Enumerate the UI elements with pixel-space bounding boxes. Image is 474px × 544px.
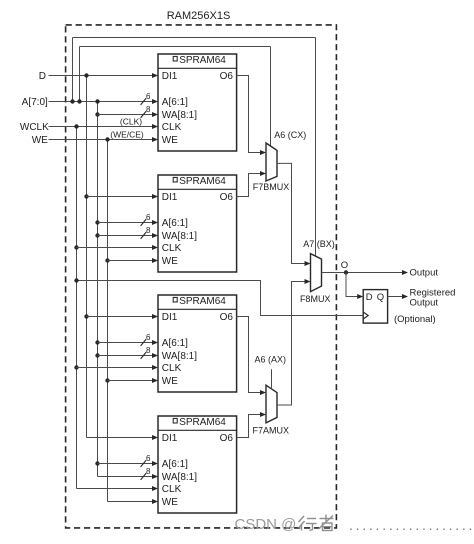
- wire DI1 U2: [87, 196, 153, 198]
- wire A6(CX) top run: [80, 46, 271, 48]
- svg-text:A[6:1]: A[6:1]: [162, 218, 188, 229]
- svg-text:Q: Q: [377, 292, 384, 303]
- junction WA1 branch: [95, 112, 99, 116]
- wire FDR Q to Registered Output: [388, 296, 402, 298]
- wire D input: [49, 75, 153, 77]
- U2 header glyph square: [173, 177, 177, 182]
- wire F7AMUX out to F8MUX in1: [277, 282, 305, 406]
- wire CLK U4: [77, 488, 153, 490]
- svg-text:WCLK: WCLK: [20, 122, 49, 133]
- svg-text:SPRAM64: SPRAM64: [179, 55, 226, 66]
- svg-text:A6 (AX): A6 (AX): [255, 355, 287, 365]
- mux F8MUX: [311, 254, 322, 292]
- watermark hanzi Xing: [299, 516, 317, 531]
- arrow DI1 U4: [152, 435, 158, 440]
- wire WE U3: [108, 380, 153, 382]
- wire D vertical bus: [86, 76, 88, 438]
- watermark hanzi Zhe: [319, 515, 334, 531]
- arrow FDR D: [357, 294, 363, 299]
- arrow Registered Output: [402, 294, 408, 299]
- wire A[6:1] U2: [98, 222, 153, 224]
- wire F8MUX out to Output: [322, 272, 403, 274]
- wire WA[8:1] U3: [98, 355, 153, 357]
- U3 header divider: [158, 308, 237, 310]
- wire CLK U2: [77, 247, 153, 249]
- svg-text:(Optional): (Optional): [394, 314, 436, 325]
- junction A / U3 WA: [95, 353, 99, 357]
- U1 header glyph square: [173, 56, 177, 61]
- svg-text:A[6:1]: A[6:1]: [162, 338, 188, 349]
- junction WE: [105, 137, 109, 141]
- svg-text:DI1: DI1: [162, 71, 178, 82]
- arrow CLK U4: [152, 486, 158, 491]
- junction WCLK: [74, 124, 78, 128]
- wire DI1 U4: [87, 437, 153, 439]
- svg-text:SPRAM64: SPRAM64: [179, 176, 226, 187]
- bus slash 8 U4: [141, 473, 147, 480]
- svg-text:A7 (BX): A7 (BX): [303, 239, 335, 249]
- svg-text:(WE/CE): (WE/CE): [110, 130, 144, 140]
- svg-text:8: 8: [146, 105, 151, 114]
- svg-text:6: 6: [146, 213, 151, 222]
- arrow WA[8:1] U4: [152, 474, 158, 479]
- arrow CLK U3: [152, 365, 158, 370]
- wire A[6:1] U4: [98, 463, 153, 465]
- bus slash 6 U3: [141, 339, 147, 346]
- svg-text:O6: O6: [220, 192, 234, 203]
- junction A: [95, 99, 99, 103]
- wire O to FDR D input: [346, 273, 357, 297]
- arrow F8MUX in1: [305, 279, 311, 284]
- svg-text:WE: WE: [32, 135, 48, 146]
- wire U1 O6 to F7BMUX in0: [237, 76, 261, 153]
- svg-text:A6 (CX): A6 (CX): [274, 130, 306, 140]
- arrow CLK U2: [152, 245, 158, 250]
- svg-text:WE: WE: [162, 497, 178, 508]
- junction A line / A7 riser: [70, 99, 74, 103]
- wire WA[8:1] U4: [98, 476, 153, 478]
- svg-text:CLK: CLK: [162, 363, 182, 374]
- FDR clock triangle: [363, 312, 368, 319]
- SPRAM64 block U2: [158, 175, 237, 272]
- mux F7BMUX: [266, 143, 277, 181]
- U2 header divider: [158, 188, 237, 190]
- wire WCLK to FDR clock: [77, 281, 364, 316]
- arrow Output: [402, 270, 408, 275]
- svg-text:...................: ...................: [349, 517, 474, 533]
- svg-text:A[6:1]: A[6:1]: [162, 459, 188, 470]
- wire A6(CX) select riser: [79, 47, 81, 102]
- wire WE U2: [108, 260, 153, 262]
- svg-text:F7AMUX: F7AMUX: [253, 426, 290, 436]
- wire A7 select riser: [72, 38, 74, 102]
- junction WE / U2: [105, 258, 109, 262]
- svg-text:WE: WE: [162, 135, 178, 146]
- bus slash 8 U3: [141, 352, 147, 359]
- svg-text:CSDN @: CSDN @: [235, 516, 297, 533]
- junction WE / U3: [105, 378, 109, 382]
- svg-text:D: D: [366, 292, 373, 303]
- bus slash 6 U1: [141, 98, 147, 105]
- wire A6(CX) drop to F7BMUX: [270, 47, 272, 147]
- bus slash 8 U2: [141, 232, 147, 239]
- wire WCLK input: [49, 126, 153, 128]
- junction WCLK / U2: [74, 245, 78, 249]
- wire DI1 U3: [87, 316, 153, 318]
- svg-text:CLK: CLK: [162, 484, 182, 495]
- junction A line / A6 riser: [77, 99, 81, 103]
- svg-text:DI1: DI1: [162, 312, 178, 323]
- svg-text:WA[8:1]: WA[8:1]: [162, 472, 197, 483]
- mux F7AMUX: [266, 385, 277, 423]
- svg-text:O: O: [341, 260, 348, 271]
- arrow WE U2: [152, 258, 158, 263]
- svg-text:F8MUX: F8MUX: [300, 294, 331, 304]
- svg-text:F7BMUX: F7BMUX: [253, 182, 290, 192]
- wire WE vertical bus: [107, 140, 109, 502]
- svg-text:DI1: DI1: [162, 192, 178, 203]
- wire A[7:0] input: [49, 101, 153, 103]
- arrow F8MUX in0: [305, 261, 311, 266]
- wire A7 select top run: [73, 37, 316, 39]
- arrow CLK into U1: [152, 124, 158, 129]
- arrow F7AMUX in1: [260, 412, 266, 417]
- svg-text:SPRAM64: SPRAM64: [179, 296, 226, 307]
- wire U3 O6 to F7AMUX in0: [237, 317, 261, 393]
- bus slash 6 U4: [141, 460, 147, 467]
- svg-text:RAM256X1S: RAM256X1S: [167, 10, 231, 22]
- svg-text:WE: WE: [162, 376, 178, 387]
- arrow A[6:1] into U1: [152, 99, 158, 104]
- wire A vertical bus: [97, 102, 99, 477]
- wire WA[8:1] U2: [98, 235, 153, 237]
- svg-text:WA[8:1]: WA[8:1]: [162, 351, 197, 362]
- svg-text:CLK: CLK: [162, 122, 182, 133]
- wire F7BMUX out to F8MUX in0: [277, 163, 305, 263]
- junction WCLK / FDR clock: [74, 278, 78, 282]
- arrow WE U4: [152, 499, 158, 504]
- junction D / U2: [84, 194, 88, 198]
- svg-text:8: 8: [146, 467, 151, 476]
- svg-text:WA[8:1]: WA[8:1]: [162, 231, 197, 242]
- svg-text:DI1: DI1: [162, 433, 178, 444]
- wire WE input: [49, 139, 153, 141]
- junction node O: [344, 270, 348, 274]
- bus slash 8 U1: [141, 111, 147, 118]
- U3 header glyph square: [173, 297, 177, 302]
- arrow A[6:1] U2: [152, 220, 158, 225]
- junction D / U3: [84, 314, 88, 318]
- RAM256X1S boundary (dashed): [66, 25, 337, 528]
- arrow F7BMUX in1: [260, 171, 266, 176]
- arrow WE U3: [152, 378, 158, 383]
- bus slash 6 U2: [141, 219, 147, 226]
- U4 header glyph square: [173, 418, 177, 423]
- arrow WE into U1: [152, 137, 158, 142]
- SPRAM64 block U1: [158, 54, 237, 151]
- arrow WA[8:1] U3: [152, 353, 158, 358]
- svg-text:SPRAM64: SPRAM64: [179, 417, 226, 428]
- svg-text:O6: O6: [220, 312, 234, 323]
- arrow DI1 U3: [152, 314, 158, 319]
- svg-text:6: 6: [146, 454, 151, 463]
- U4 header divider: [158, 429, 237, 431]
- arrow WA[8:1] U2: [152, 233, 158, 238]
- svg-text:8: 8: [146, 226, 151, 235]
- junction A / U4 A: [95, 461, 99, 465]
- arrow A[6:1] U3: [152, 340, 158, 345]
- svg-text:8: 8: [146, 346, 151, 355]
- junction WCLK / U3: [74, 365, 78, 369]
- arrow F7BMUX in0: [260, 150, 266, 155]
- svg-text:A[7:0]: A[7:0]: [22, 97, 48, 108]
- svg-text:D: D: [39, 71, 46, 82]
- wire U2 O6 to F7BMUX in1: [237, 174, 261, 197]
- SPRAM64 block U4: [158, 416, 237, 513]
- wire A7 select drop to F8MUX: [315, 38, 317, 257]
- svg-text:Output: Output: [410, 268, 439, 279]
- junction A / U3 A: [95, 340, 99, 344]
- svg-text:CLK: CLK: [162, 243, 182, 254]
- wire U4 O6 to F7AMUX in1: [237, 415, 261, 438]
- SPRAM64 block U3: [158, 295, 237, 392]
- U1 header divider: [158, 67, 237, 69]
- wire CLK U3: [77, 367, 153, 369]
- select stub A6 (AX): [271, 369, 273, 389]
- arrow WA into U1: [152, 112, 158, 117]
- arrow DI1 U2: [152, 194, 158, 199]
- arrow D into U1 DI1: [152, 73, 158, 78]
- svg-text:6: 6: [146, 333, 151, 342]
- arrow F7AMUX in0: [260, 390, 266, 395]
- svg-text:O6: O6: [220, 433, 234, 444]
- flip-flop FDR (optional): [363, 290, 387, 324]
- wire WA to U1: [98, 114, 153, 116]
- svg-text:WA[8:1]: WA[8:1]: [162, 110, 197, 121]
- svg-text:O6: O6: [220, 71, 234, 82]
- junction A / U2 WA: [95, 233, 99, 237]
- junction D: [84, 73, 88, 77]
- junction A / U2 A: [95, 220, 99, 224]
- arrow A[6:1] U4: [152, 461, 158, 466]
- svg-text:Output: Output: [410, 298, 439, 309]
- svg-text:A[6:1]: A[6:1]: [162, 97, 188, 108]
- svg-text:(CLK): (CLK): [120, 117, 142, 127]
- svg-text:WE: WE: [162, 256, 178, 267]
- wire A[6:1] U3: [98, 342, 153, 344]
- wire WE U4: [108, 501, 153, 503]
- svg-text:6: 6: [146, 92, 151, 101]
- wire WCLK vertical bus: [76, 127, 78, 489]
